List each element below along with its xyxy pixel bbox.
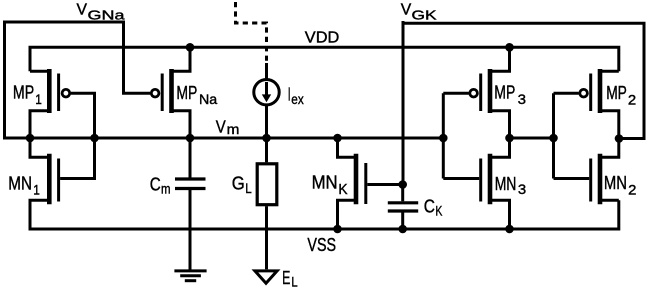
svg-text:C: C	[150, 175, 161, 195]
node VDD junction dots	[186, 43, 195, 52]
svg-text:1: 1	[35, 91, 42, 107]
wire Vm rail	[3, 137, 443, 140]
svg-text:MP: MP	[13, 83, 34, 103]
transistor MP2 (PMOS, gate on left)	[580, 69, 619, 139]
svg-text:3: 3	[518, 181, 527, 197]
capacitor Cm	[175, 138, 206, 270]
svg-text:MN: MN	[604, 173, 627, 193]
svg-text:2: 2	[628, 181, 637, 197]
wire V_GK vertical	[402, 21, 405, 185]
wire VDD rail	[30, 47, 619, 71]
wire V_GK top-right route to MP2/MN2 drains	[403, 23, 644, 138]
wire VSS rail	[30, 200, 619, 229]
wire V_GNa route (gate of MPNa to Vm via top-left)	[5, 22, 151, 138]
current source I_ex	[254, 63, 279, 138]
capacitor CK	[388, 185, 418, 230]
transistor MN1 (NMOS, gate on right)	[30, 138, 95, 229]
svg-text:m: m	[227, 121, 240, 137]
transistor MP3 (PMOS, gate on left)	[470, 47, 510, 138]
svg-text:3: 3	[518, 91, 527, 107]
svg-text:MN: MN	[312, 173, 338, 193]
svg-text:2: 2	[628, 91, 637, 107]
svg-text:MN: MN	[495, 174, 517, 194]
svg-text:V: V	[401, 1, 412, 18]
node V_GK / drains dot	[615, 134, 624, 143]
wire Vm to gates of MP3/MN3	[443, 93, 479, 178]
svg-text:GK: GK	[412, 7, 437, 22]
transistor MN3 (NMOS, gate on left)	[481, 138, 510, 229]
node inverter1 out dots	[505, 134, 514, 143]
node VSS junction dots	[333, 225, 342, 234]
svg-text:E: E	[282, 268, 290, 288]
wire inverter1 output node	[510, 137, 554, 140]
node MNK gate dot	[398, 180, 407, 189]
svg-text:VSS: VSS	[307, 235, 336, 255]
transistor MNK (NMOS, gate on right)	[338, 138, 403, 229]
transistor MP1 (PMOS, gate on right)	[30, 69, 95, 138]
svg-text:1: 1	[33, 182, 40, 198]
wire to gates of MP2/MN2	[554, 93, 590, 178]
node Vm junction dots	[26, 134, 35, 143]
E_L arrow terminal	[255, 271, 277, 283]
svg-text:V: V	[216, 117, 226, 137]
svg-text:I: I	[288, 84, 291, 104]
svg-text:C: C	[424, 196, 435, 216]
svg-text:MN: MN	[8, 174, 32, 194]
transistor MPNa (PMOS, gate on left)	[151, 47, 190, 138]
svg-text:MP: MP	[176, 83, 197, 103]
svg-text:K: K	[435, 203, 442, 219]
svg-text:MP: MP	[494, 83, 515, 103]
svg-text:L: L	[245, 180, 252, 196]
svg-text:MP: MP	[606, 83, 627, 103]
ground symbol	[174, 271, 206, 281]
svg-text:m: m	[161, 181, 171, 197]
resistor G_L	[257, 138, 277, 269]
svg-text:ex: ex	[291, 91, 303, 107]
svg-text:VDD: VDD	[305, 30, 340, 47]
svg-text:K: K	[338, 182, 348, 198]
svg-text:V: V	[77, 2, 88, 19]
svg-text:Na: Na	[199, 91, 217, 107]
svg-text:L: L	[291, 275, 298, 290]
svg-text:G: G	[232, 174, 245, 194]
transistor MN2 (NMOS, gate on left)	[591, 139, 619, 205]
wire dashed input to Iex	[236, 2, 267, 62]
svg-text:GNa: GNa	[88, 7, 126, 22]
